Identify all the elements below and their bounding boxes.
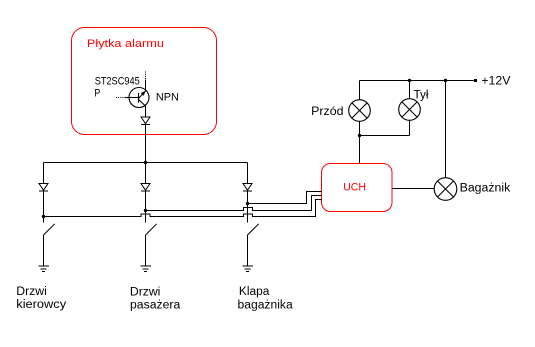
svg-text:Drzwi: Drzwi — [16, 286, 47, 298]
svg-text:bagażnika: bagażnika — [238, 300, 294, 312]
svg-text:Bagażnik: Bagażnik — [460, 182, 511, 194]
svg-text:+12V: +12V — [481, 73, 510, 87]
svg-text:NPN: NPN — [156, 92, 179, 104]
svg-text:Płytka alarmu: Płytka alarmu — [87, 38, 164, 50]
svg-text:kierowcy: kierowcy — [16, 299, 66, 311]
svg-text:Klapa: Klapa — [239, 286, 270, 298]
svg-text:Tył: Tył — [414, 90, 429, 102]
svg-text:ST2SC945: ST2SC945 — [95, 76, 140, 88]
svg-text:P: P — [94, 88, 100, 100]
svg-text:Przód: Przód — [311, 104, 343, 118]
svg-text:UCH: UCH — [343, 182, 366, 194]
svg-text:pasażera: pasażera — [130, 299, 181, 311]
svg-text:Drzwi: Drzwi — [130, 286, 161, 298]
